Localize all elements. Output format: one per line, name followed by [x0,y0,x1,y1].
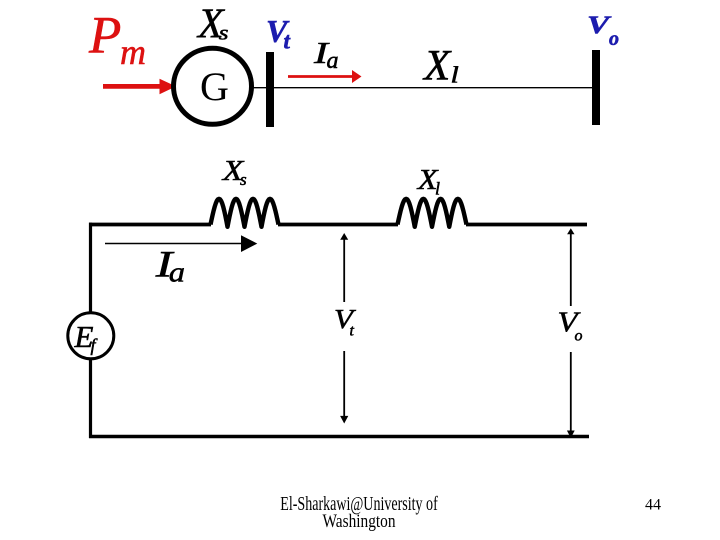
wire: circuit bottom [89,435,589,439]
arrow Vo down (circuit) [567,352,575,438]
label Vo (load voltage, one-line) [587,12,619,50]
svg-text:l: l [451,62,459,88]
label Xl (circuit) [416,163,440,198]
arrow Vt down (circuit) [340,351,348,424]
svg-text:a: a [327,48,339,74]
wire: circuit top right segment [466,223,587,227]
arrow Ia (circuit, armature current) [105,235,257,252]
label Vt (terminal voltage, one-line) [266,13,291,54]
arrow Ia (red, line current) [288,70,362,83]
svg-text:Washington: Washington [323,511,396,532]
wire: circuit top middle segment [278,223,398,227]
svg-text:s: s [219,22,229,44]
wire: generator to bus 1 and on to bus 2 [251,87,592,89]
svg-text:o: o [609,28,619,50]
svg-text:l: l [435,179,440,199]
inductor Xs coil [211,199,279,227]
svg-text:s: s [240,170,247,189]
label Ia (circuit) [155,244,185,288]
svg-text:t: t [350,323,355,340]
svg-text:G: G [200,64,229,109]
svg-text:o: o [575,328,583,345]
source Ef circle [68,313,114,359]
svg-text:a: a [169,256,185,288]
label Vt (circuit) [334,304,357,340]
wire: left vertical (Ef to top) [89,223,92,313]
wire: left vertical (Ef to bottom) [89,359,92,438]
bus bar 1 (terminal bus) [266,52,274,127]
svg-text:m: m [120,32,146,72]
label Vo (circuit) [558,308,583,345]
svg-text:44: 44 [645,497,661,514]
bus bar 2 (load bus) [592,50,600,125]
label Xs (circuit) [221,154,247,189]
arrow Vt up (circuit) [340,233,348,302]
label Xs (synchronous reactance, one-line) [196,2,229,48]
label Ia (one-line) [313,35,339,74]
svg-text:f: f [91,335,99,355]
svg-text:t: t [284,29,291,54]
arrow Vo up (circuit) [567,228,574,306]
label Pm (mechanical power) [88,7,146,73]
wire: circuit top left segment [89,223,211,227]
svg-text:P: P [88,7,121,65]
label Xl (line reactance, one-line) [422,43,459,90]
svg-text:X: X [422,43,452,90]
generator G circle [174,48,252,124]
inductor Xl coil [398,199,467,227]
arrow Pm (red, into generator) [103,79,176,94]
label Ef [74,319,99,355]
